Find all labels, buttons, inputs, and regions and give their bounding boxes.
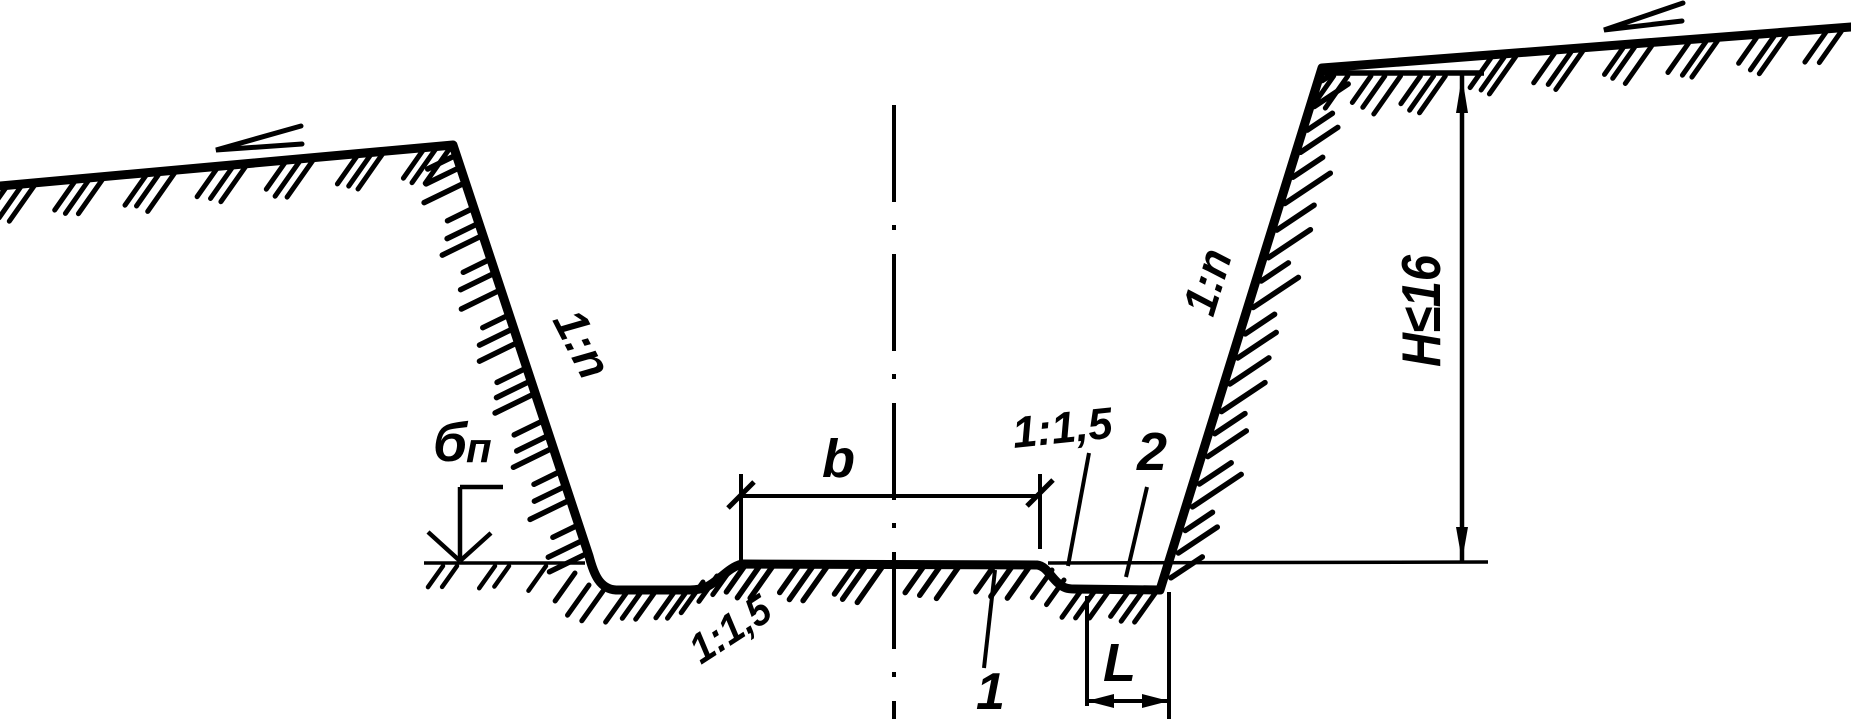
svg-text:1:1,5: 1:1,5 <box>1010 399 1115 458</box>
hatching along left slope <box>424 157 585 572</box>
svg-text:б: б <box>433 411 469 473</box>
hatching below trench bottom and left ditch <box>428 566 1029 622</box>
main excavation profile outline (left surface, left slope, ditches, bottom, right slope, right surface) <box>0 27 1851 590</box>
svg-text:b: b <box>822 429 855 489</box>
dimension marker for berm width (bp) with down arrow <box>428 487 503 561</box>
dimension H<=16 : extension line, dimension line, arrowheads <box>1322 70 1484 76</box>
dimension b : extension lines, dimension line, oblique ticks <box>728 474 1053 561</box>
centre axis (dash-dot) <box>892 105 896 719</box>
hatching below right ground surface <box>1313 31 1842 114</box>
slope direction arrow top-left <box>216 126 302 150</box>
hatching along right slope <box>1171 74 1348 578</box>
hatching below right ditch <box>1032 570 1156 622</box>
svg-text:2: 2 <box>1136 422 1167 482</box>
svg-text:H≤16: H≤16 <box>1390 255 1452 367</box>
hatching below left ground surface <box>0 148 450 221</box>
svg-text:L: L <box>1103 633 1136 693</box>
thin ground reference line left of slope toe <box>424 561 585 565</box>
dimension L : extension lines, dimension line, arrowheads <box>1087 592 1169 719</box>
slope direction arrow top-right <box>1604 3 1683 30</box>
svg-text:1: 1 <box>976 663 1005 719</box>
svg-text:п: п <box>466 424 492 471</box>
thin ground reference line right of trench <box>1048 562 1488 563</box>
